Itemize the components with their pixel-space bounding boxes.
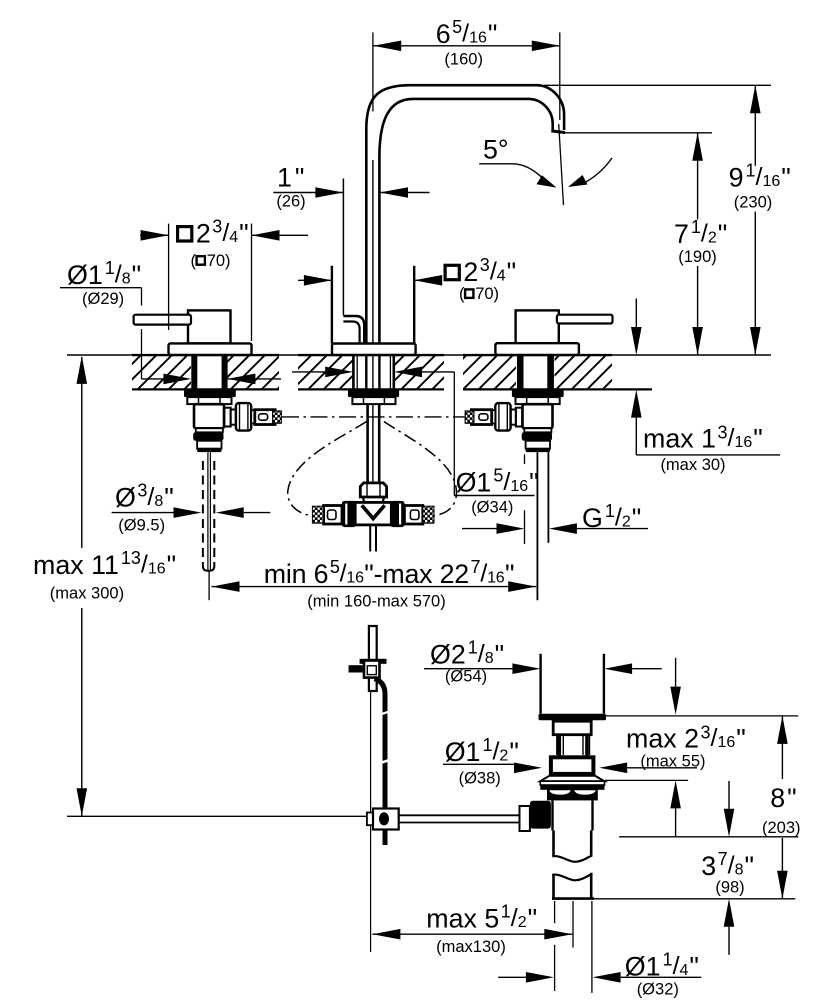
drain nut (Ø38) (551, 757, 594, 774)
spout tube inner wall (379, 99, 552, 355)
lift rod clamp block (364, 661, 380, 678)
tee union hex nut (360, 483, 386, 497)
bent actuating rod (375, 679, 386, 845)
right handle escutcheon (495, 343, 579, 355)
left valve hose serrated end (273, 411, 282, 423)
dimension square 2 3/4 (70) left escutcheon (140, 216, 308, 341)
svg-text:1": 1" (277, 163, 304, 193)
spout outlet face (551, 131, 565, 133)
rod break gaps (381, 711, 388, 764)
right valve body (523, 404, 553, 428)
deck top surface line (67, 354, 771, 356)
svg-text:23/4": 23/4" (196, 216, 249, 248)
center faucet mounting nut (352, 397, 395, 404)
trumpet underside lobes (548, 790, 572, 796)
right handle lever (557, 315, 613, 324)
svg-text:(26): (26) (276, 192, 305, 210)
pivot nut at drain (520, 806, 530, 831)
drain tail tube with break (554, 830, 592, 898)
drop rod flexible guide tube dashed (Ø9.5) (203, 461, 214, 571)
tee neck (363, 497, 384, 502)
left handle shank walls through deck (191, 355, 227, 389)
lift rod centerline extension (370, 691, 372, 952)
dimension 1 inch (26) riser offset (273, 163, 429, 211)
svg-text:(Ø9.5): (Ø9.5) (118, 517, 165, 535)
svg-text:5°: 5° (483, 135, 509, 165)
countertop deck hatched section center segment (298, 355, 444, 390)
svg-text:37/8": 37/8" (701, 849, 754, 881)
right valve compression nut (495, 403, 510, 431)
right valve locknut (512, 390, 564, 397)
pivot ball (379, 812, 389, 825)
right valve supply tail pipe (537, 452, 548, 600)
dimension Ø1 1/4 (32) tail pipe (498, 901, 701, 999)
clamp screw (349, 665, 363, 672)
drain neck (553, 721, 591, 735)
pivot clevis body (373, 809, 399, 830)
left valve locknut (184, 390, 236, 397)
dimension min 6 5/16 - max 22 7/16 hose range (212, 557, 537, 611)
dimension max 2 3/16 (max 55) (599, 658, 798, 837)
trumpet white band (540, 781, 604, 785)
dimension Ø1 1/2 (38) drain thread (443, 735, 542, 788)
dimension square 2 3/4 (70) center escutcheon (298, 255, 516, 303)
spout pop-up rod line inside riser (372, 160, 374, 355)
left valve hose connector block (255, 410, 275, 425)
svg-text:(190): (190) (678, 248, 717, 266)
countertop deck hatched section left segment (132, 355, 279, 390)
svg-text:(min 160-max 570): (min 160-max 570) (307, 593, 445, 611)
ball joint housing (530, 801, 551, 829)
tee body (355, 502, 391, 525)
right valve side fitting rings (511, 408, 522, 427)
center shank walls through deck (353, 355, 393, 404)
svg-text:(max 30): (max 30) (660, 456, 725, 474)
dimension 6 5/16 (160) spout reach (373, 17, 560, 120)
svg-text:(Ø54): (Ø54) (445, 668, 487, 686)
dimension Ø 3/8 (9.5) pop-up rod (112, 481, 271, 535)
dimension Ø2 1/8 (54) flange (424, 637, 662, 685)
dimension 5 degree spout angle (479, 124, 612, 205)
tube break wave upper (552, 855, 592, 862)
tee bottom outlet stub (370, 525, 376, 551)
right valve hose serrated end (465, 411, 474, 423)
svg-text:65/16": 65/16" (436, 17, 498, 49)
dimension max 11 13/16 (max 300) rod length (33, 356, 367, 816)
left valve side fitting rings (224, 408, 236, 427)
svg-text:8": 8" (770, 783, 796, 813)
right valve bottom stack (522, 428, 552, 452)
dimension 3 7/8 (98) (619, 781, 798, 955)
svg-text:91/16": 91/16" (729, 161, 791, 193)
svg-text:(230): (230) (734, 194, 773, 212)
drain tee body (553, 800, 593, 830)
svg-text:(98): (98) (715, 879, 744, 897)
svg-text:(Ø34): (Ø34) (471, 499, 513, 517)
svg-text:(Ø32): (Ø32) (637, 981, 679, 999)
left valve fitting shaft (251, 410, 255, 423)
pop-up drop rod below left valve (208, 452, 211, 600)
left handle body (188, 310, 231, 343)
right handle shank walls through deck (517, 355, 554, 389)
internal elbow channel (343, 316, 364, 344)
dimension max 1 3/16 (max 30) deck thickness (631, 299, 780, 474)
svg-text:(max130): (max130) (436, 938, 506, 956)
left flexible hose swing curve dashed (288, 422, 367, 516)
dimension 9 1/16 (230) spout height (544, 85, 791, 355)
tee left compression nut (342, 501, 356, 527)
left valve bottom stack (193, 428, 223, 452)
tee right hose block (404, 506, 422, 525)
left valve compression nut (236, 403, 251, 431)
left handle lever (134, 315, 191, 325)
lift rod clamp bar (360, 659, 387, 664)
countertop deck hatched section right segment (463, 355, 612, 390)
svg-text:70): 70) (207, 252, 231, 270)
svg-text:(203): (203) (762, 819, 801, 837)
tee left serrated hose end (312, 506, 323, 523)
drain flange band (539, 714, 607, 721)
tube end edge line (552, 897, 594, 900)
dimension 7 1/2 (190) aerator height (565, 133, 727, 355)
spout tube outer wall (366, 85, 564, 355)
faucet internal passage wall / 26mm reference line (342, 179, 344, 316)
svg-text:(Ø29): (Ø29) (82, 290, 124, 308)
right valve hose connector block (471, 410, 491, 425)
trumpet lower black collar (547, 790, 598, 801)
svg-text:(Ø38): (Ø38) (459, 770, 501, 788)
tee funnel V mark (362, 505, 385, 518)
dimension Ø1 1/8 (29) handle hole (60, 258, 281, 384)
right handle body (516, 310, 559, 343)
deck bottom line (132, 388, 652, 390)
tee right compression nut (390, 501, 404, 527)
drain plug cylinder (Ø54) (541, 654, 604, 714)
right valve fitting shaft (492, 410, 496, 423)
left valve mounting nut (187, 397, 231, 404)
trumpet black band (540, 785, 604, 790)
horizontal pivot rod to drain (399, 815, 520, 822)
lower view: pop-up lift rod flat bar (369, 626, 377, 691)
tube break wave lower (552, 874, 592, 881)
svg-text:(max 300): (max 300) (50, 585, 124, 603)
svg-text:71/2": 71/2" (674, 217, 727, 249)
dimension G 1/2 supply thread (462, 454, 648, 544)
dimension 8 inch (203) (762, 716, 801, 899)
faucet base plate (332, 344, 416, 355)
tee right serrated hose end (423, 506, 434, 523)
drain trumpet flare (540, 776, 604, 782)
svg-text:(160): (160) (444, 51, 483, 69)
left valve body (194, 404, 224, 428)
right flexible hose swing curve dashed (384, 422, 457, 516)
right valve mounting nut (516, 397, 560, 404)
left handle escutcheon (169, 343, 252, 355)
hose connection centerline dash-dot (282, 416, 465, 418)
center pop-up rod tube (368, 404, 380, 481)
drain threaded section side posts (557, 736, 590, 755)
dimension max 5 1/2 (max130) (372, 901, 573, 956)
dimension Ø1 5/16 (34) shank diameter (292, 367, 539, 517)
svg-text:70): 70) (475, 285, 499, 303)
tee left hose block (324, 506, 342, 525)
svg-text:23/4": 23/4" (463, 255, 516, 287)
pivot rod end cap (367, 813, 373, 826)
faucet body column (332, 266, 414, 344)
center faucet locknut below deck (348, 390, 399, 397)
